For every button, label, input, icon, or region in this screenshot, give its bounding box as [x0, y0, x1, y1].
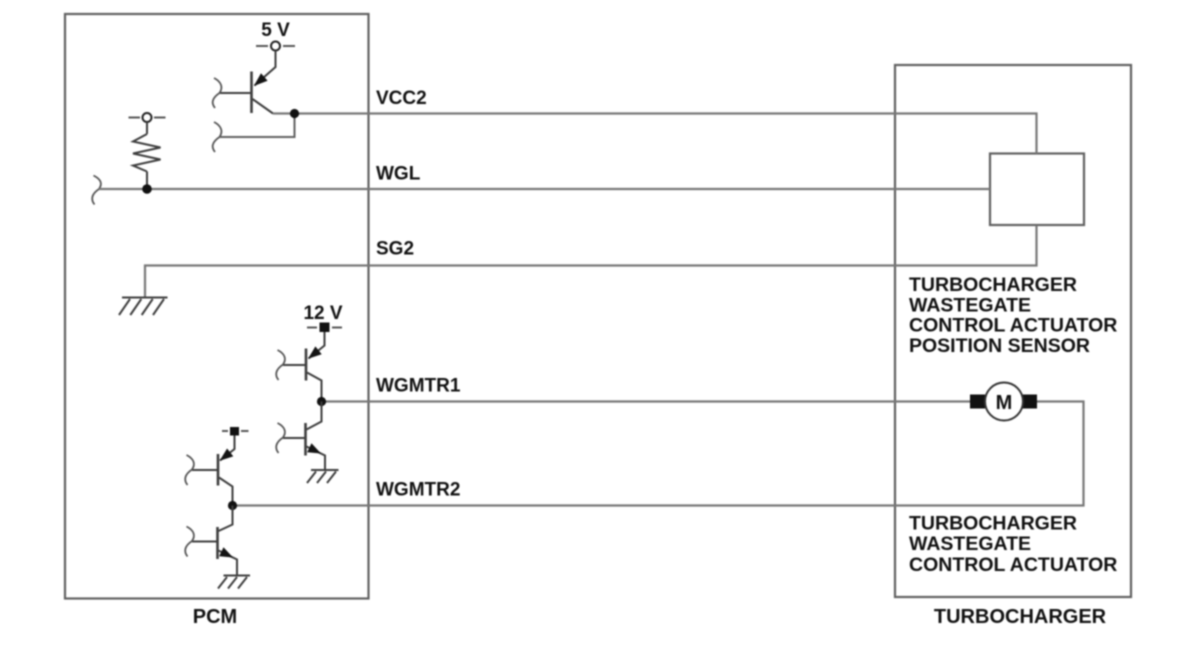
Q5 emitter	[219, 551, 238, 576]
Q2 base	[283, 364, 305, 366]
Q4 bar	[217, 454, 220, 486]
motor M right terminal	[1023, 395, 1038, 409]
Q4 base	[192, 469, 217, 471]
svg-text:SG2: SG2	[376, 239, 414, 260]
motor M left terminal	[970, 395, 985, 409]
Q1 emitter arrowhead	[254, 73, 268, 86]
Q5 collector	[219, 506, 233, 532]
squiggle Q2 base	[276, 350, 285, 380]
label TURBOCHARGER WASTEGATE CONTROL ACTUATOR POSITION SENSOR	[909, 274, 1117, 357]
svg-text:VCC2: VCC2	[376, 88, 427, 109]
svg-text:POSITION SENSOR: POSITION SENSOR	[909, 335, 1090, 357]
transistor Q2 (WGMTR1 high side)	[283, 332, 325, 402]
svg-text:TURBOCHARGER: TURBOCHARGER	[909, 513, 1077, 535]
node WGL junction dot	[142, 184, 152, 194]
svg-text:5 V: 5 V	[261, 20, 290, 41]
transistor Q1 (5V supply, VCC2)	[220, 51, 276, 114]
wire second input to VCC2 node	[220, 114, 295, 138]
wire WGL	[99, 188, 990, 190]
12V terminal square (left pair)	[230, 427, 239, 436]
Q4 emitter lead	[220, 436, 235, 461]
Q1 emitter lead from 5V	[255, 51, 276, 86]
svg-text:12 V: 12 V	[303, 303, 342, 324]
node VCC2 junction dot	[290, 109, 299, 118]
svg-text:WGMTR2: WGMTR2	[376, 480, 460, 501]
Q1 collector	[253, 99, 274, 114]
Q5 emitter arrowhead	[219, 547, 233, 557]
5V terminal circle	[271, 42, 280, 51]
squiggle Q5 base	[185, 527, 194, 557]
Q5 base	[192, 541, 217, 543]
Q2 collector	[307, 373, 322, 402]
node WGMTR1 junction dot	[317, 397, 326, 406]
PCM box	[65, 14, 369, 599]
Q4 emitter arrowhead	[220, 449, 234, 461]
label TURBOCHARGER WASTEGATE CONTROL ACTUATOR	[909, 513, 1117, 577]
svg-text:PCM: PCM	[193, 606, 237, 628]
Q1 bar	[250, 72, 253, 114]
squiggle WGL left end	[92, 176, 101, 205]
svg-text:WASTEGATE: WASTEGATE	[909, 294, 1031, 316]
Q3 emitter arrowhead	[307, 443, 321, 453]
TURBOCHARGER box	[895, 65, 1131, 597]
transistor Q4 (WGMTR2 high side)	[192, 436, 235, 506]
ground Q5	[218, 576, 250, 589]
wire VCC2	[273, 114, 1037, 154]
12V terminal square	[320, 323, 330, 333]
Q2 emitter lead from 12V	[309, 332, 325, 359]
wire WGMTR1	[322, 400, 971, 402]
squiggle Q3 base	[276, 423, 285, 453]
Q3 emitter	[307, 447, 326, 471]
svg-text:TURBOCHARGER: TURBOCHARGER	[934, 606, 1107, 628]
node WGMTR2 junction dot	[228, 501, 237, 510]
resistor terminal circle	[143, 113, 152, 122]
Q3 collector	[307, 402, 322, 430]
Q3 bar	[304, 423, 307, 456]
Q2 emitter arrowhead	[308, 346, 322, 358]
wire SG2	[145, 226, 1037, 298]
squiggle Q1 base	[213, 78, 222, 108]
svg-text:TURBOCHARGER: TURBOCHARGER	[909, 274, 1077, 296]
ground SG2	[119, 298, 168, 316]
Q3 base	[283, 437, 305, 439]
wire WGMTR2	[233, 402, 1084, 506]
svg-text:CONTROL ACTUATOR: CONTROL ACTUATOR	[909, 554, 1117, 576]
svg-text:M: M	[996, 392, 1013, 414]
Q5 bar	[216, 527, 219, 559]
motor M circle	[985, 383, 1023, 421]
resistor R1	[133, 122, 161, 185]
position sensor box	[990, 154, 1084, 226]
Q4 collector	[219, 478, 233, 506]
transistor Q3 (WGMTR1 low side)	[283, 402, 325, 471]
squiggle Q1 second input	[213, 122, 222, 152]
Q2 bar	[305, 349, 308, 381]
svg-text:WGL: WGL	[376, 164, 421, 185]
svg-text:WASTEGATE: WASTEGATE	[909, 533, 1031, 555]
Q1 base	[220, 92, 251, 94]
svg-text:WGMTR1: WGMTR1	[376, 376, 461, 397]
svg-text:CONTROL ACTUATOR: CONTROL ACTUATOR	[909, 315, 1117, 337]
transistor Q5 (WGMTR2 low side)	[192, 506, 237, 576]
ground Q3	[307, 470, 339, 483]
squiggle Q4 base	[185, 455, 194, 485]
